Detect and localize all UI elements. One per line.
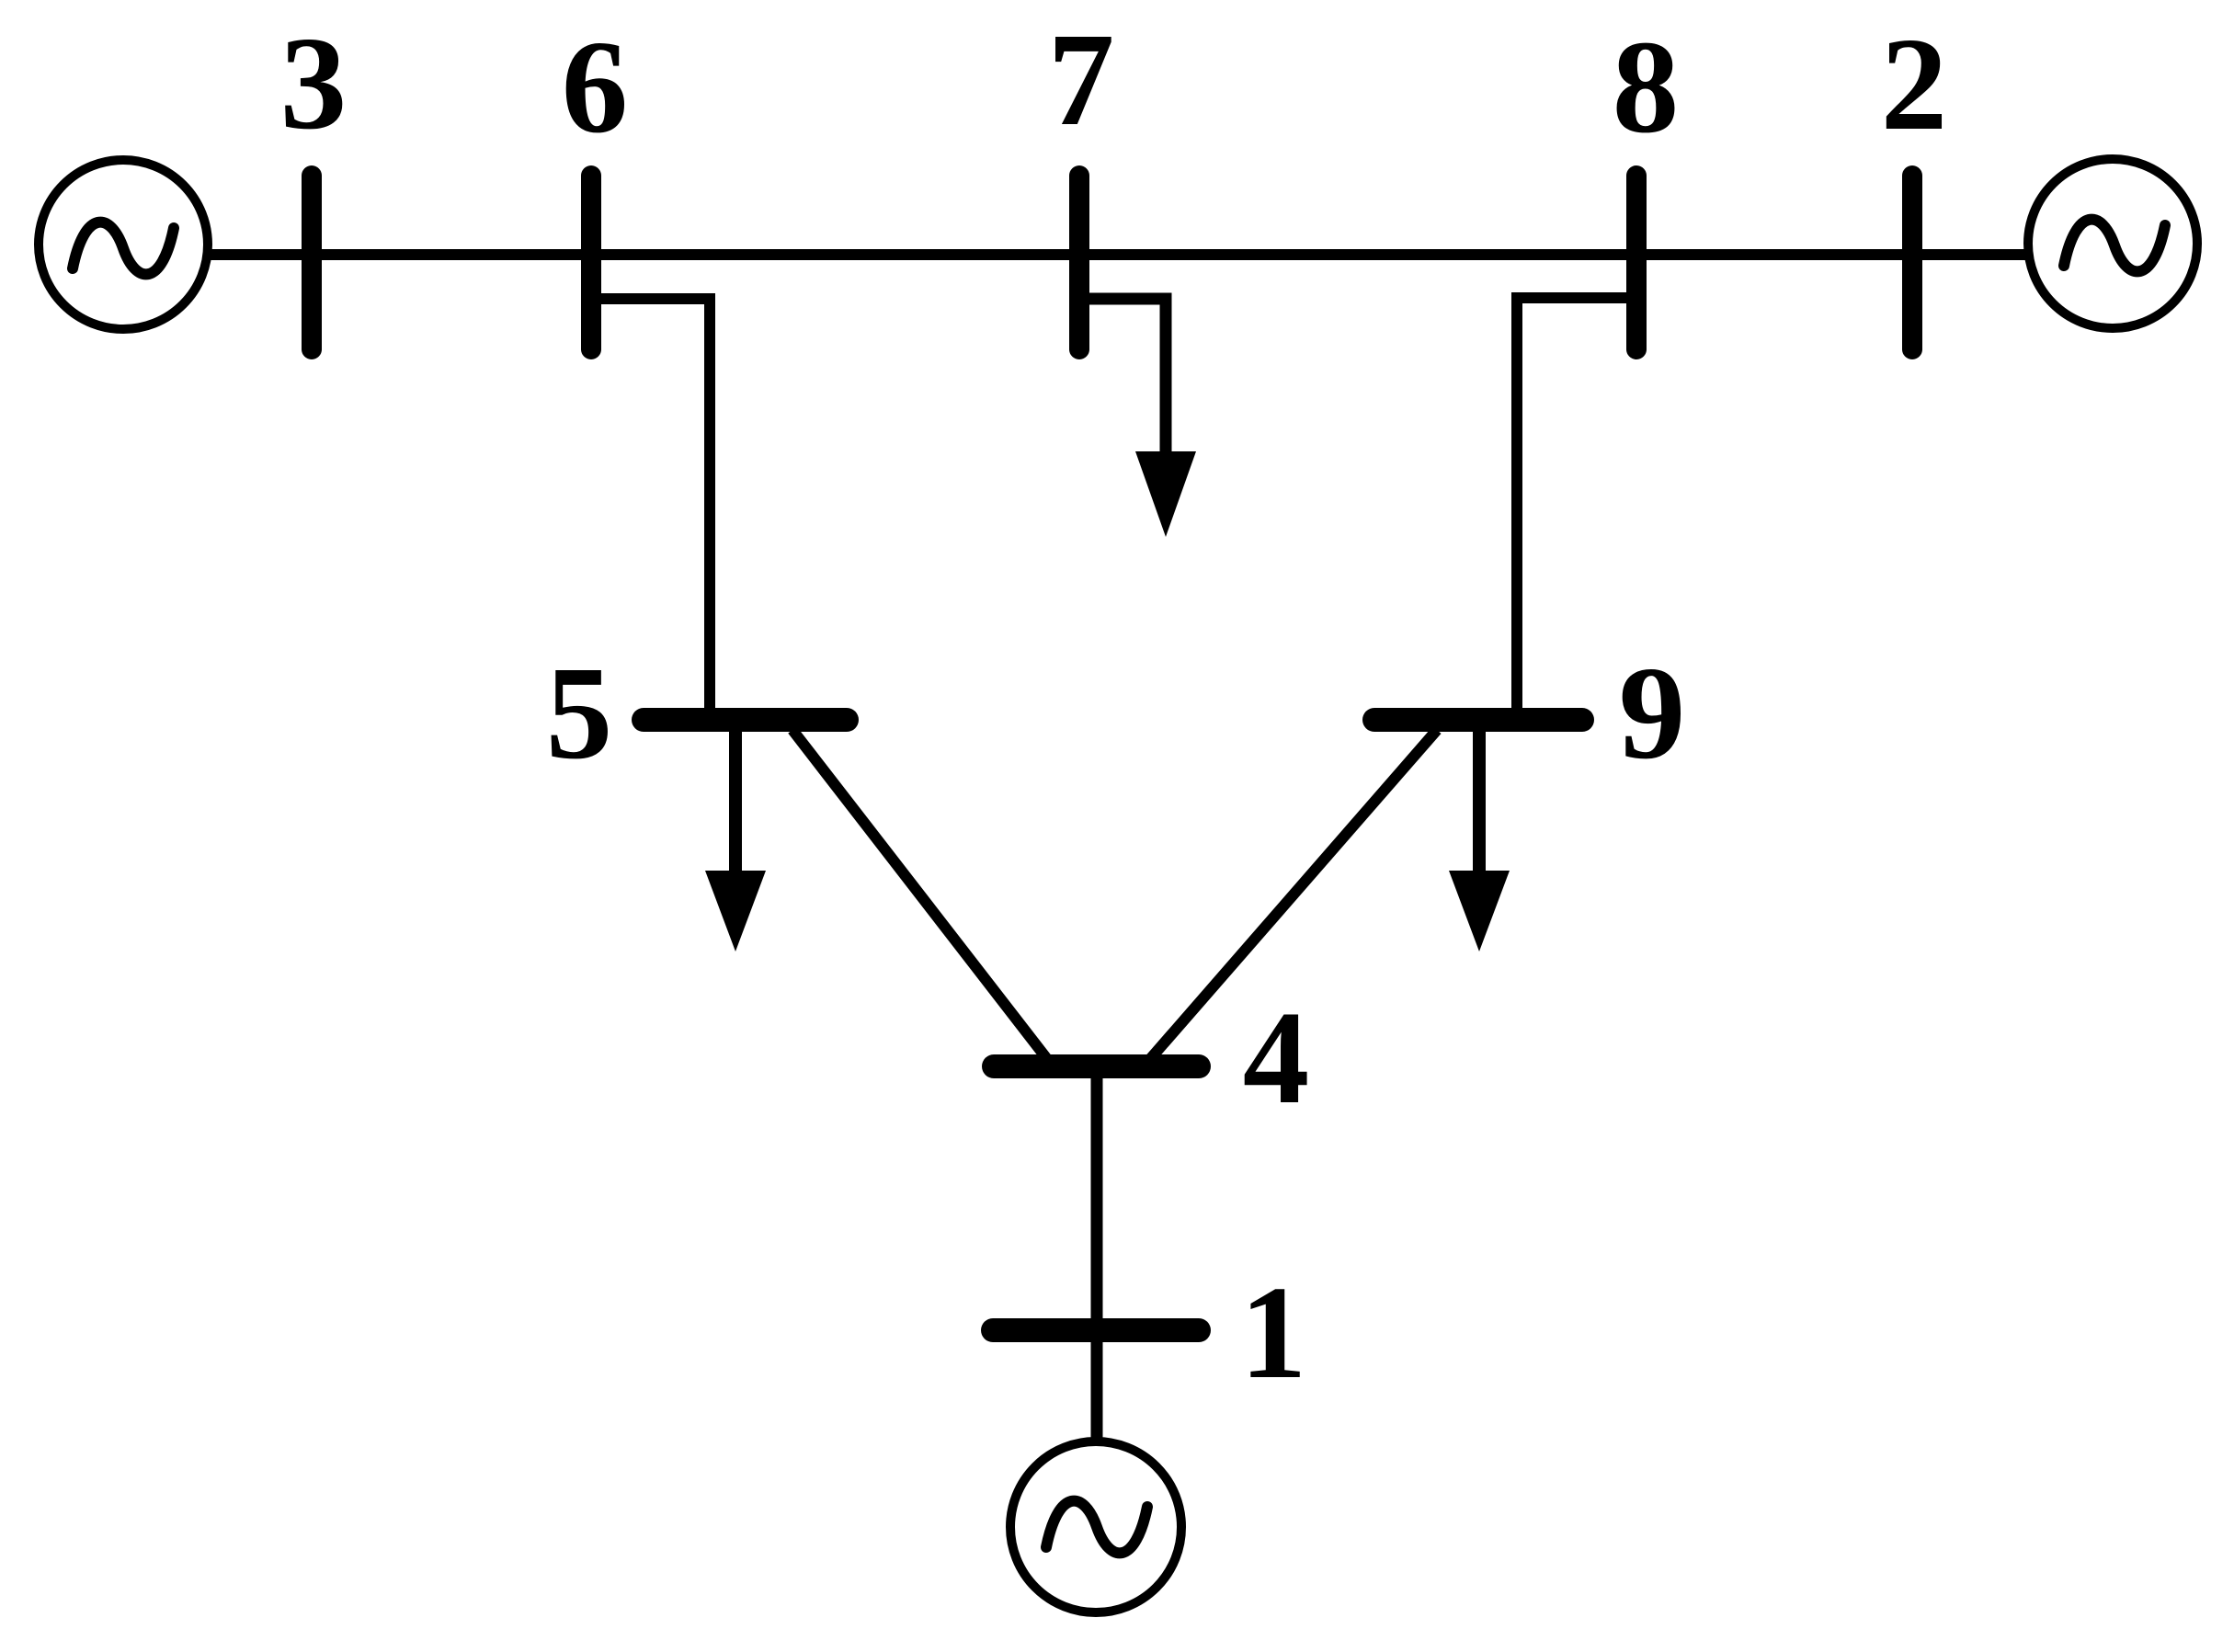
- load arrow at bus 9: [1473, 726, 1486, 883]
- wire: line bus 5 to bus 4: [792, 730, 1047, 1059]
- bus 2 (vertical busbar): [1902, 176, 1922, 349]
- svg-text:4: 4: [1243, 985, 1310, 1132]
- bus 4 (horizontal busbar): [994, 1054, 1199, 1078]
- load arrow at bus 7: [1135, 451, 1196, 537]
- bus 3 (vertical busbar): [302, 176, 322, 349]
- svg-text:7: 7: [1048, 6, 1115, 154]
- bus 9 (horizontal busbar): [1374, 708, 1582, 732]
- svg-text:5: 5: [546, 640, 613, 787]
- bus 1 (horizontal busbar): [993, 1318, 1199, 1342]
- wire: line bus 9 to bus 4: [1150, 730, 1437, 1059]
- svg-text:6: 6: [562, 14, 629, 161]
- generator G1 (bottom, at bus 1): [1010, 1441, 1181, 1612]
- svg-text:8: 8: [1613, 14, 1680, 161]
- generator G3 (left, at bus 3): [39, 160, 208, 329]
- bus 8 (vertical busbar): [1626, 176, 1647, 349]
- wire: main top transmission line from generator G3 to generator G2: [208, 249, 2026, 260]
- load arrow at bus 5: [729, 726, 742, 883]
- bus 6 (vertical busbar): [581, 176, 601, 349]
- wire: branch bus 6 to bus 5: [593, 299, 710, 712]
- svg-text:1: 1: [1240, 1259, 1307, 1407]
- svg-text:3: 3: [280, 10, 348, 157]
- svg-text:9: 9: [1619, 640, 1686, 787]
- generator G2 (right, at bus 2): [2028, 159, 2197, 328]
- svg-text:2: 2: [1881, 11, 1948, 158]
- wire: branch bus 7 to load: [1081, 299, 1166, 469]
- wire: branch bus 8 to bus 9: [1517, 298, 1635, 712]
- bus 7 (vertical busbar): [1069, 176, 1089, 349]
- wire: bus 4 to bus 1 to generator G1: [1091, 1066, 1103, 1440]
- bus 5 (horizontal busbar): [644, 708, 847, 732]
